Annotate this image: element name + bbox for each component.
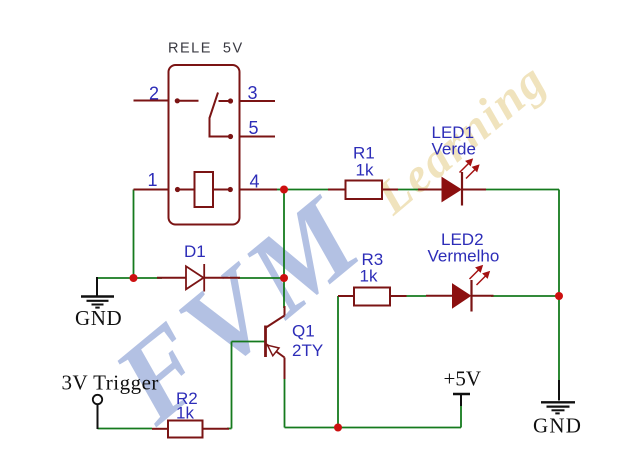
wire: relay pin1 down to node A [133, 190, 135, 279]
relay pin 4 stub [240, 189, 278, 191]
svg-text:Q1: Q1 [292, 322, 315, 341]
wire: LED1 to right rail [484, 189, 559, 191]
resistor R2 lead left [152, 428, 168, 430]
LED1 lead left [418, 189, 442, 191]
relay pin dot 2 [175, 98, 180, 103]
relay pin dot 3 [228, 98, 233, 103]
junction node A at D1 anode [130, 274, 138, 282]
transistor Q1 collector diagonal [266, 316, 285, 328]
LED2 arrow 2 [477, 272, 490, 285]
relay coil lead left [178, 189, 195, 191]
diode D1 cathode lead [204, 277, 240, 279]
transistor Q1 emitter lead [284, 358, 286, 380]
svg-text:Vermelho: Vermelho [428, 247, 500, 266]
watermark FVM [90, 170, 390, 450]
wire: base horizontal to Q1 [232, 341, 265, 343]
junction node D at LED2 right [555, 292, 563, 300]
wire: D1 cathode to node B [238, 277, 284, 279]
wire: relay pin4 node C vertical down through node B to Q1 collector [283, 190, 285, 309]
input terminal 3V Trigger circle [93, 395, 102, 404]
wire: +5V pin vertical [460, 405, 462, 428]
relay contact blade [210, 93, 219, 119]
ground GND right bars [541, 402, 575, 413]
relay pin 2 stub [134, 100, 169, 102]
transistor Q1 base bar [264, 326, 267, 358]
transistor Q1 emitter arrow [268, 345, 280, 356]
wire: pin4 stub to node C [276, 189, 284, 191]
resistor R3 lead left [338, 295, 354, 297]
relay pin 5 stub [240, 136, 276, 138]
svg-text:GND: GND [533, 414, 582, 438]
resistor R3 lead right [390, 295, 407, 297]
svg-text:D1: D1 [184, 242, 206, 261]
relay contact elbow to pin5 [210, 118, 231, 137]
transistor Q1 emitter diagonal [266, 344, 285, 358]
svg-text:5: 5 [249, 118, 259, 138]
resistor R2 lead right [203, 428, 230, 430]
LED2 lead left [426, 295, 453, 297]
wire: +5V bottom rail [285, 427, 462, 429]
svg-text:1k: 1k [360, 267, 378, 286]
relay coil [195, 172, 214, 207]
LED1 triangle [442, 178, 461, 202]
resistor R3 body [354, 288, 390, 306]
junction node E on +5V rail [334, 424, 342, 432]
svg-text:+5V: +5V [444, 367, 482, 391]
resistor R1 lead left [328, 189, 346, 191]
LED1 arrow 2 [466, 166, 479, 179]
ground GND left bars [81, 297, 114, 308]
svg-text:1k: 1k [356, 161, 374, 180]
LED1 lead right [462, 189, 486, 191]
relay pin dot 5 [228, 134, 233, 139]
wire: GND to node A horizontal [97, 277, 134, 279]
wire: trigger terminal to R2 [98, 428, 153, 430]
relay K1 body [169, 65, 240, 225]
svg-text:3V Trigger: 3V Trigger [62, 371, 159, 395]
wire: Q1 emitter down [284, 378, 286, 428]
svg-text:2TY: 2TY [292, 341, 323, 360]
input terminal lead [97, 404, 99, 429]
svg-text:1k: 1k [176, 404, 194, 423]
svg-text:Verde: Verde [432, 140, 476, 159]
resistor R1 body [346, 181, 383, 200]
svg-text:1: 1 [148, 170, 158, 190]
ground GND left pin line [96, 277, 98, 296]
svg-text:2: 2 [149, 84, 159, 104]
relay pin dot 1 [175, 187, 180, 192]
resistor R2 body [168, 421, 203, 438]
relay pin dot 4 [228, 187, 233, 192]
LED1 cathode bar [461, 172, 463, 206]
LED2 lead right [473, 295, 494, 297]
LED1 arrow 1 [460, 160, 473, 173]
junction node B at D1 cathode [280, 274, 288, 282]
diode D1 anode lead [157, 277, 186, 279]
ground GND right pin line [558, 380, 560, 401]
diode D1 cathode bar [203, 264, 205, 292]
supply +5V bar [453, 393, 470, 395]
watermark Learning [365, 51, 558, 226]
svg-text:GND: GND [75, 306, 122, 330]
LED2 arrow 1 [470, 266, 483, 279]
svg-text:4: 4 [250, 172, 260, 192]
wire: R2 to base corner [227, 428, 232, 430]
wire: node A to D1 anode [134, 277, 163, 279]
LED2 triangle [453, 284, 471, 308]
wire: node C to R1 [284, 189, 330, 191]
resistor R1 lead right [382, 189, 398, 191]
svg-text:3: 3 [248, 83, 258, 103]
wire: LED2 to node D [491, 295, 559, 297]
junction node C at relay pin4 [280, 186, 288, 194]
relay coil lead right [213, 189, 230, 191]
wire: right rail vertical LED1 to node D to GND2 [558, 190, 560, 383]
relay pin 3 stub [240, 100, 276, 102]
diode D1 triangle [186, 266, 204, 289]
wire: R3 left corner down to node E on +5V rail [337, 296, 339, 428]
transistor Q1 collector lead [284, 306, 286, 316]
relay pin 1 stub [134, 189, 169, 191]
relay contact common lead [177, 100, 198, 102]
wire: R1 to LED1 [396, 189, 420, 191]
wire: R3 to LED2 [405, 295, 427, 297]
wire: base corner vertical up [231, 342, 233, 429]
relay pin3 inner stub [219, 100, 231, 102]
supply +5V pin line [460, 394, 462, 406]
LED2 cathode bar [470, 280, 472, 312]
svg-text:RELE 5V: RELE 5V [168, 41, 244, 57]
